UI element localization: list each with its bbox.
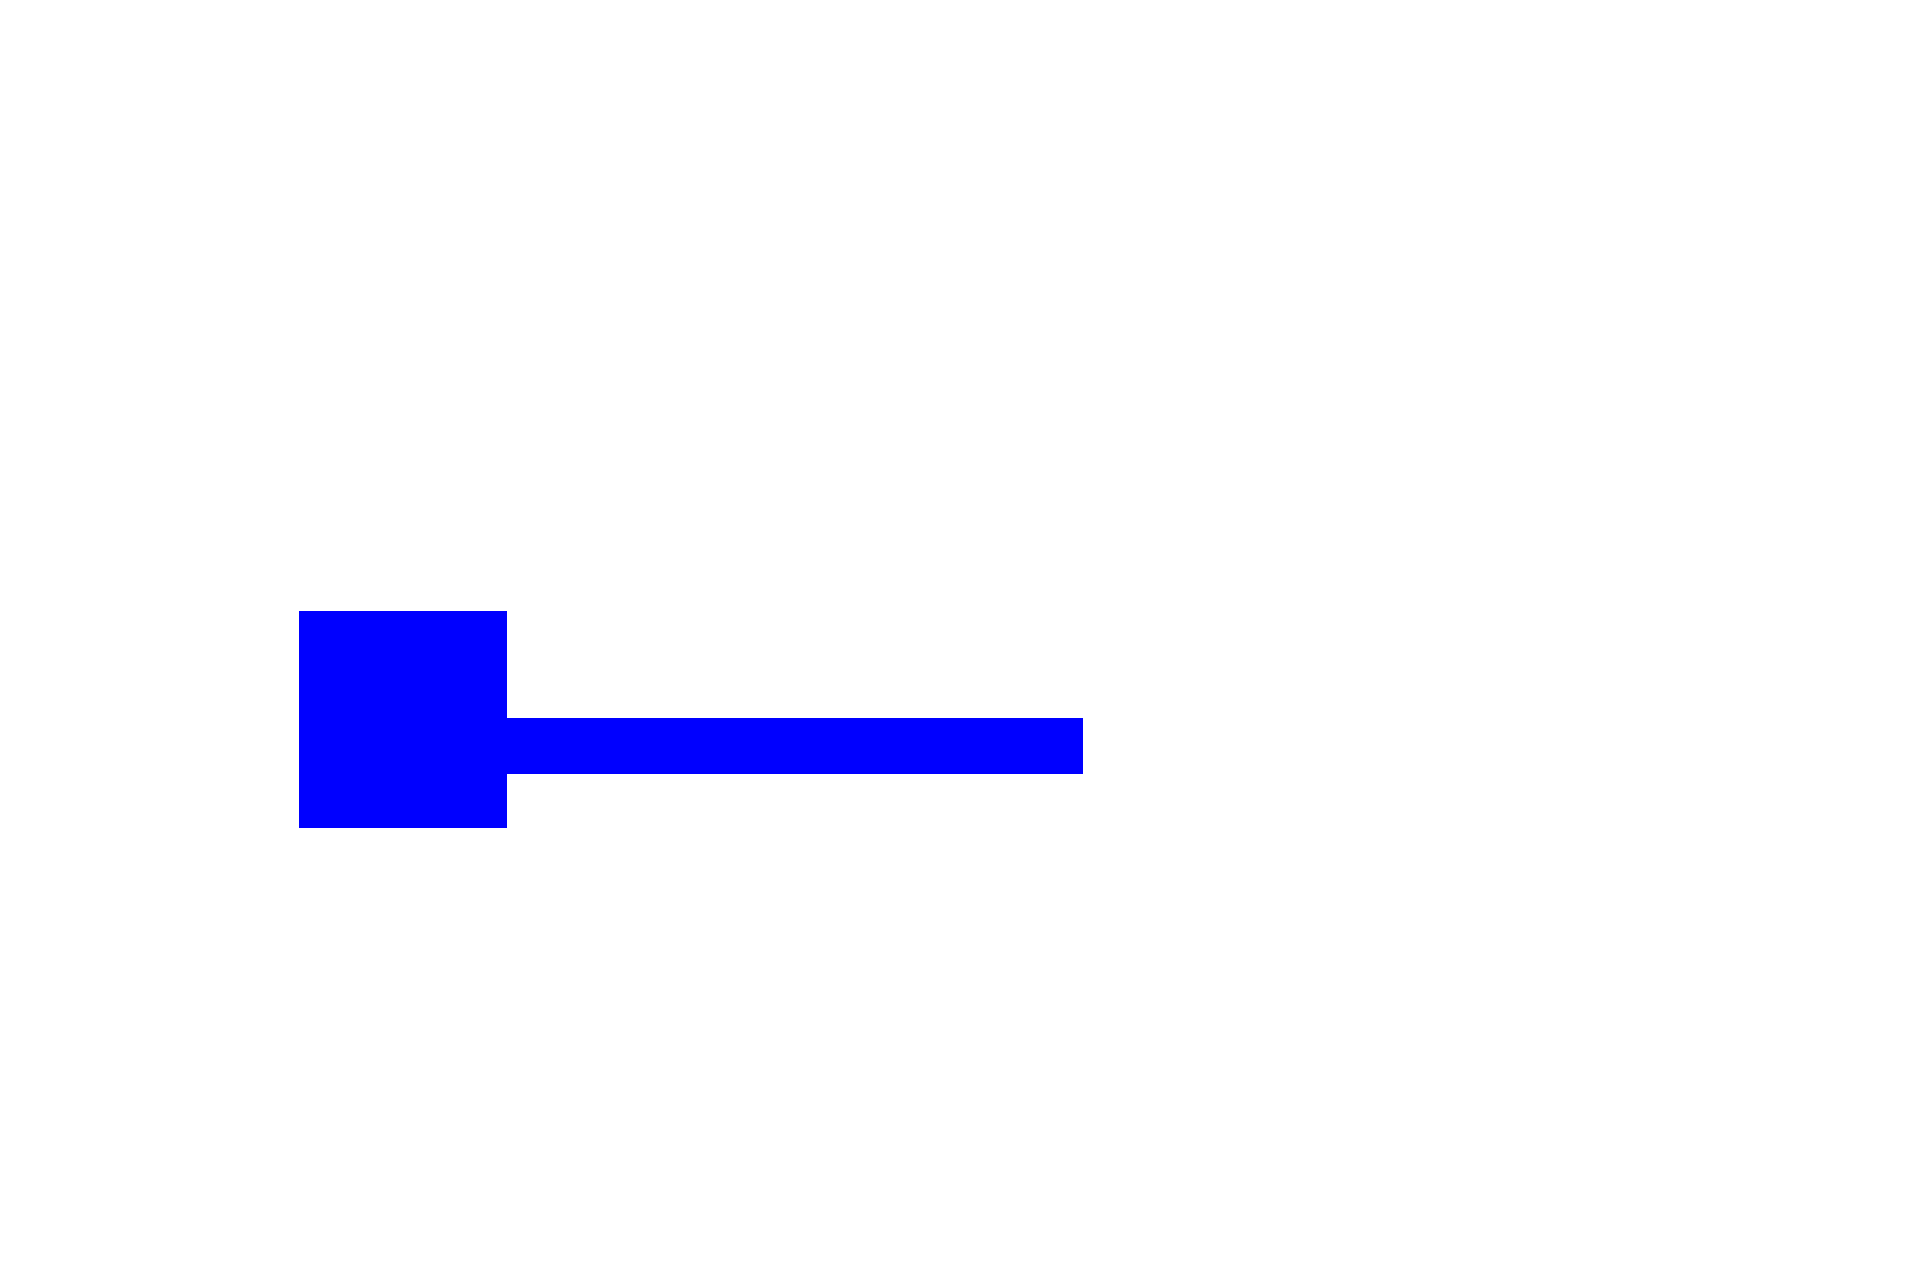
blue bar <box>507 718 1083 774</box>
blue square <box>299 611 507 828</box>
